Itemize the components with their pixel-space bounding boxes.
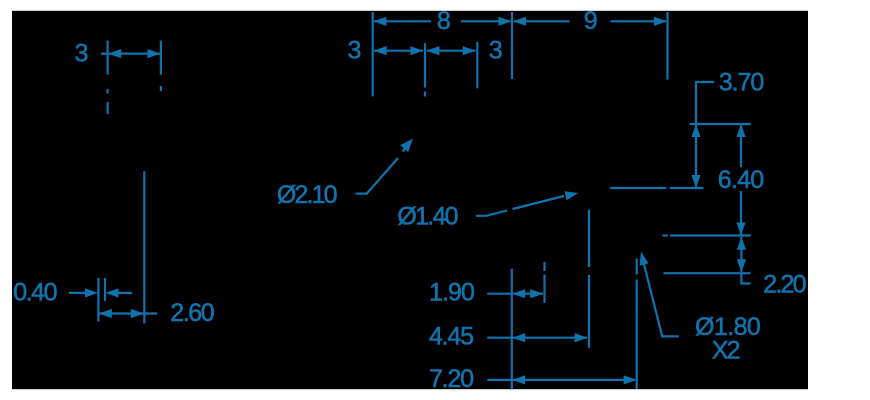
svg-text:1.90: 1.90 (429, 279, 475, 307)
svg-text:3: 3 (348, 37, 362, 65)
2.20 bracket (741, 273, 750, 283)
common extension line (511, 269, 513, 390)
arrow left of 8 (373, 17, 386, 26)
arrow right (410, 46, 423, 55)
arrow right of 8 (499, 17, 512, 26)
svg-text:7.20: 7.20 (429, 365, 474, 393)
arrow up 2.20 (737, 237, 746, 250)
svg-text:3: 3 (489, 37, 503, 65)
arrow left (426, 46, 439, 55)
dim line 2.20 (740, 237, 742, 272)
dim line 3 left pair (374, 50, 423, 52)
arrowhead Ø1.80 points up (640, 252, 649, 266)
svg-text:2.60: 2.60 (170, 299, 215, 327)
arrow right 4.45 (575, 333, 588, 342)
svg-text:4.45: 4.45 (429, 323, 474, 351)
arrow up 3.70 (691, 124, 700, 137)
arrow left (108, 49, 121, 58)
arrow down 2.20 (737, 259, 746, 272)
extension line E5 (666, 12, 668, 80)
feature line D (663, 272, 750, 274)
dim line 4.45 (512, 337, 587, 339)
leader Ø1.80 (644, 264, 679, 337)
arrow right 7.20 (624, 375, 637, 384)
arrow right 1.90 (530, 289, 543, 298)
dim line 7.20 (512, 379, 635, 381)
dim line 3 (101, 52, 160, 54)
4.45 right extension (588, 210, 590, 348)
svg-text:3.70: 3.70 (719, 68, 765, 96)
svg-text:2.20: 2.20 (763, 271, 806, 299)
feature line C (663, 234, 751, 236)
arrow left 1.90 (512, 289, 525, 298)
extension line E1 (372, 12, 374, 96)
dim line 6.40 upper (740, 124, 742, 167)
3.70 bracket (696, 82, 714, 124)
pin right edge (104, 278, 106, 301)
extension line right (160, 41, 162, 91)
arrow left 7.20 (512, 375, 525, 384)
dim line 1.90 (512, 293, 543, 295)
0.40 right leader with arrow (118, 292, 132, 294)
arrow right of 9 (654, 17, 667, 26)
arrow left of 2.60 (99, 309, 112, 318)
dim line 6.40 lower (740, 191, 742, 236)
leader 7.20 (487, 379, 512, 381)
arrow down 6.40 (736, 223, 745, 236)
arrow down 3.70 (691, 175, 700, 188)
dim line 9 (514, 20, 666, 22)
arrow left of 9 (513, 17, 526, 26)
arrow right (147, 49, 160, 58)
svg-text:Ø1.40: Ø1.40 (397, 203, 458, 231)
svg-text:Ø2.10: Ø2.10 (277, 181, 338, 209)
extension line E3 (476, 42, 478, 88)
arrow right of 2.60 (131, 309, 144, 318)
pin left edge (97, 278, 99, 322)
7.20 right extension (636, 259, 638, 390)
feature line A (690, 123, 751, 125)
extension line E2 center (424, 43, 426, 96)
svg-text:3: 3 (75, 40, 89, 68)
leader Ø2.10 (356, 148, 406, 194)
leader 4.45 (487, 337, 512, 339)
pin centerline vertical (143, 171, 145, 323)
1.90 right extension (543, 262, 545, 303)
extension line left (106, 41, 108, 114)
svg-text:0.40: 0.40 (13, 279, 57, 307)
arrow up 6.40 (736, 124, 745, 137)
pad row hidden line B (610, 187, 703, 189)
extension line E4 shared (511, 12, 513, 79)
dim line 8 (374, 20, 511, 22)
leader 1.90 (487, 293, 512, 295)
svg-text:X2: X2 (712, 337, 741, 365)
svg-text:9: 9 (584, 7, 598, 35)
dim line 3.70 (695, 124, 697, 188)
leader Ø1.40 (476, 196, 564, 216)
arrow left 4.45 (512, 333, 525, 342)
arrowhead Ø1.40 (565, 191, 579, 200)
arrowhead Ø2.10 (400, 139, 413, 153)
svg-text:8: 8 (437, 7, 451, 35)
0.40 left leader with arrow (69, 292, 86, 294)
svg-text:6.40: 6.40 (718, 166, 764, 194)
dim line 2.60 (99, 312, 158, 314)
arrow right (463, 46, 476, 55)
arrow left (374, 46, 387, 55)
dim line 3 right pair (427, 50, 476, 52)
